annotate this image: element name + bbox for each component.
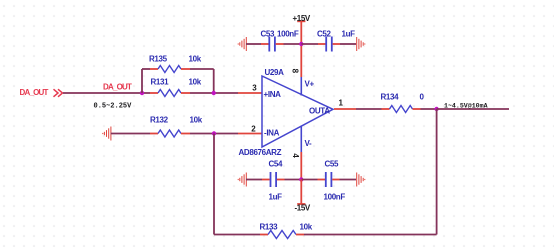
- wire top row mid-left: [284, 43, 302, 45]
- svg-text:+INA: +INA: [264, 90, 282, 99]
- wire top row mid-right: [301, 43, 318, 45]
- wire row B from ground: [111, 133, 150, 135]
- wire bottom row right: [340, 179, 357, 181]
- svg-text:0.5~2.25V: 0.5~2.25V: [94, 102, 133, 110]
- wire output to right: [437, 108, 509, 110]
- ground for R132: [103, 127, 111, 141]
- svg-text:1uF: 1uF: [342, 29, 356, 38]
- svg-text:R132: R132: [150, 115, 169, 124]
- svg-text:-15V: -15V: [295, 204, 311, 213]
- capacitor C54: [262, 159, 285, 201]
- node C feedback junction: [212, 131, 216, 135]
- svg-text:V+: V+: [305, 79, 315, 88]
- node bottom cap junction: [299, 177, 303, 181]
- wire row A from port to node: [63, 92, 150, 94]
- svg-text:10k: 10k: [189, 77, 202, 86]
- wire bottom row mid-left: [285, 179, 302, 181]
- wire feedback bottom left: [214, 234, 260, 236]
- pin 4 V- stub: [300, 126, 302, 153]
- svg-text:1uF: 1uF: [269, 193, 283, 202]
- wire row B to op-amp: [190, 133, 238, 135]
- wire bottom row left: [246, 179, 262, 181]
- svg-text:-INA: -INA: [264, 129, 280, 138]
- resistor R133: [260, 222, 313, 238]
- svg-text:C55: C55: [325, 159, 340, 168]
- top cap row: ground right: [357, 37, 365, 51]
- wire left vertical to R135 row: [141, 69, 143, 93]
- svg-text:R131: R131: [151, 77, 170, 86]
- svg-text:+15V: +15V: [293, 14, 311, 23]
- bottom cap row: ground left: [238, 173, 246, 187]
- pin 3 stub: [238, 92, 262, 94]
- svg-text:AD8676ARZ: AD8676ARZ: [239, 148, 282, 157]
- power -15V: [295, 180, 311, 213]
- svg-text:V-: V-: [305, 139, 313, 148]
- wire output to R134: [356, 108, 382, 110]
- svg-text:OUTA: OUTA: [309, 107, 330, 116]
- node A left junction: [140, 91, 144, 95]
- pin 2 stub: [238, 133, 262, 135]
- node B right junction: [212, 91, 216, 95]
- svg-text:R134: R134: [381, 92, 400, 101]
- svg-text:DA_OUT: DA_OUT: [20, 88, 49, 97]
- wire row A node to op-amp: [190, 92, 238, 94]
- wire bottom row mid-right: [301, 179, 317, 181]
- svg-text:U29A: U29A: [265, 68, 285, 77]
- svg-text:100nF: 100nF: [277, 29, 299, 38]
- svg-text:1~4.5V@10mA: 1~4.5V@10mA: [444, 102, 488, 109]
- svg-text:100nF: 100nF: [324, 193, 346, 202]
- wire top row right: [340, 43, 356, 45]
- wire R134 to output node: [421, 108, 437, 110]
- svg-text:R135: R135: [149, 54, 168, 63]
- wire feedback left vertical: [213, 134, 215, 235]
- port DA_OUT: [20, 88, 63, 97]
- wire pin 4 to -15V rail: [300, 152, 302, 180]
- svg-text:C53: C53: [261, 29, 276, 38]
- pin 8 V+ stub: [300, 77, 302, 96]
- capacitor C53: [261, 29, 299, 51]
- node top cap junction: [299, 42, 303, 46]
- svg-text:R133: R133: [260, 222, 279, 231]
- node output junction: [434, 107, 438, 111]
- wire right vertical from R135 row: [213, 69, 215, 93]
- svg-text:10k: 10k: [189, 54, 202, 63]
- svg-text:C54: C54: [269, 159, 284, 168]
- svg-text:C52: C52: [317, 29, 332, 38]
- wire feedback right vertical: [436, 109, 438, 235]
- op-amp U29A: [262, 68, 333, 148]
- svg-text:10k: 10k: [190, 115, 203, 124]
- wire top row left: [246, 43, 261, 45]
- resistor R135: [149, 54, 202, 72]
- top cap row: ground left: [238, 37, 246, 51]
- wire +15V rail to pin 8: [300, 44, 302, 77]
- svg-text:10k: 10k: [300, 222, 313, 231]
- wire feedback bottom right: [304, 234, 437, 236]
- resistor R131: [150, 77, 202, 96]
- capacitor C52: [317, 29, 355, 51]
- resistor R134: [381, 92, 425, 112]
- power +15V: [293, 14, 311, 44]
- svg-text:DA_OUT: DA_OUT: [103, 82, 132, 91]
- wire R135 row left: [142, 68, 150, 70]
- capacitor C55: [318, 159, 346, 201]
- resistor R132: [150, 115, 203, 137]
- bottom cap row: ground right: [357, 173, 365, 187]
- wire R135 row right: [190, 68, 214, 70]
- pin 1 stub: [334, 108, 356, 110]
